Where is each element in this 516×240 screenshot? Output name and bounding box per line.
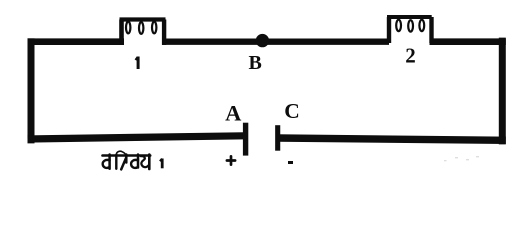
scan noise speckles bbox=[444, 156, 479, 161]
letter pa (1st) bbox=[108, 155, 111, 169]
caption "परिपथ 1" (Circuit 1) bbox=[103, 151, 151, 169]
label + (positive terminal) bbox=[227, 156, 235, 164]
wire: top-left horizontal segment bbox=[28, 38, 125, 45]
inductor 2 (coil) bbox=[387, 17, 432, 43]
battery plate A (positive electrode) bbox=[243, 123, 248, 156]
wire: left vertical side bbox=[28, 38, 35, 143]
headline (shirorekha) bbox=[103, 154, 151, 157]
wire: bottom-right horizontal segment (from battery plate C) bbox=[277, 138, 506, 140]
letter pa (2nd) bbox=[137, 155, 140, 168]
wire: bottom-left horizontal segment (to battery plate A) bbox=[28, 136, 245, 139]
vowel sign i bbox=[115, 155, 117, 169]
svg-text:C: C bbox=[284, 99, 300, 123]
node B (junction dot) bbox=[256, 34, 269, 47]
battery plate C (negative electrode) bbox=[275, 125, 280, 151]
letter tha bbox=[148, 155, 151, 170]
label - (negative terminal) bbox=[288, 161, 293, 164]
svg-text:2: 2 bbox=[405, 44, 416, 68]
caption numeral 1 bbox=[160, 159, 162, 169]
wire: top-middle horizontal segment bbox=[162, 39, 389, 45]
letter ra bbox=[125, 155, 128, 163]
svg-text:A: A bbox=[225, 101, 242, 126]
label 1 (inductor 1) bbox=[136, 57, 139, 70]
wire: right vertical side bbox=[499, 38, 506, 145]
inductor 1 (coil) bbox=[120, 20, 166, 45]
svg-text:B: B bbox=[249, 52, 262, 74]
wire: top-right horizontal segment bbox=[430, 38, 506, 45]
